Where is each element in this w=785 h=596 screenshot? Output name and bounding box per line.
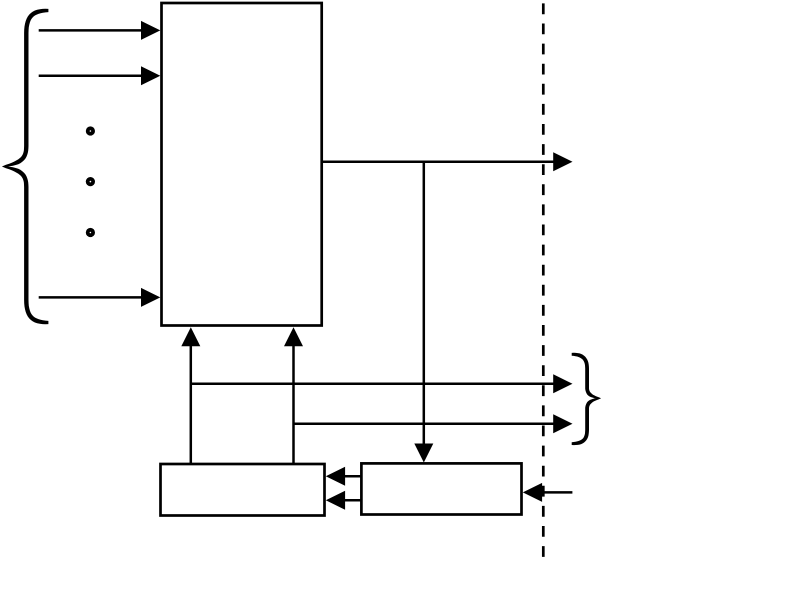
- wire output (horizontal from large box): [322, 161, 554, 164]
- brace left (inputs group): [2, 9, 49, 324]
- block U1 (large box): [162, 3, 322, 326]
- wire status out 2: [294, 423, 554, 426]
- wire input n: [39, 296, 142, 299]
- wire U3 to U2 upper: [345, 475, 361, 478]
- wire status out 1: [191, 383, 554, 386]
- boundary dashed line: [542, 3, 545, 557]
- wire control up 2: [292, 346, 295, 464]
- arrowhead input n: [141, 288, 160, 307]
- arrowhead status out 1: [553, 374, 572, 393]
- arrowhead U3 to U2 upper: [326, 467, 345, 486]
- arrowhead control up 1: [181, 327, 200, 346]
- arrowhead status out 2: [553, 414, 572, 433]
- wire feedback drop (vertical from output): [423, 162, 426, 444]
- arrowhead input 2: [141, 66, 160, 85]
- node dot 2 (ellipsis): [86, 177, 95, 186]
- block U2 (bottom-left box): [161, 464, 325, 516]
- brace right (outputs group): [572, 353, 601, 445]
- block U3 (bottom-right box): [361, 463, 521, 514]
- arrowhead U3 to U2 lower: [326, 491, 345, 510]
- wire U3 to U2 lower: [345, 499, 361, 502]
- arrowhead output: [553, 152, 572, 171]
- wire control up 1: [190, 346, 193, 464]
- arrowhead external input to U3: [523, 483, 542, 502]
- arrowhead control up 2: [284, 327, 303, 346]
- wire external input to U3: [542, 491, 572, 494]
- arrowhead input 1: [141, 21, 160, 40]
- node dot 3 (ellipsis): [86, 228, 95, 237]
- arrowhead feedback down: [414, 444, 433, 463]
- wire input 1: [39, 29, 142, 32]
- wire input 2: [39, 75, 142, 78]
- node dot 1 (ellipsis): [86, 126, 95, 135]
